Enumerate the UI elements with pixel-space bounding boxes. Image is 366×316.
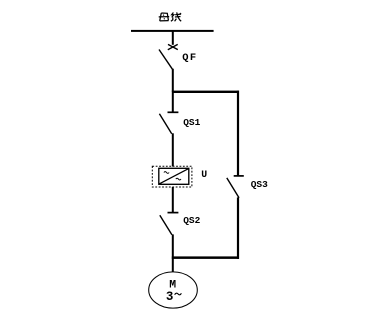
wire: QS3 branch lower vertical bbox=[237, 197, 239, 259]
disconnector QS3 blade bbox=[227, 178, 239, 198]
svg-text:U: U bbox=[201, 169, 207, 180]
wire: bottom branch horizontal from QS3 bbox=[172, 256, 239, 259]
svg-text:QF: QF bbox=[182, 52, 197, 64]
svg-text:QS2: QS2 bbox=[183, 215, 200, 226]
wire: QF to branch node bbox=[172, 69, 174, 92]
svg-text:3: 3 bbox=[166, 290, 174, 304]
motor M circle bbox=[149, 272, 198, 308]
disconnector QS2 fixed contact bar bbox=[168, 212, 179, 214]
motor tilde bbox=[175, 293, 182, 295]
converter U input AC mark bbox=[164, 172, 169, 174]
disconnector QS3 fixed contact bar bbox=[234, 175, 244, 177]
svg-text:QS3: QS3 bbox=[251, 179, 268, 190]
circuit breaker QF blade bbox=[159, 50, 172, 70]
disconnector QS1 fixed contact bar bbox=[168, 111, 179, 113]
wire: QS1 to converter U bbox=[172, 133, 174, 166]
disconnector QS2 blade bbox=[160, 215, 172, 235]
wire: converter U to QS2 bbox=[172, 187, 174, 213]
disconnector QS1 blade bbox=[159, 114, 171, 134]
circuit breaker QF contact cross bbox=[168, 44, 178, 49]
wire: QS2 down to motor node bbox=[172, 234, 174, 272]
node label 母线 (busbar name) bbox=[159, 12, 182, 21]
converter U output AC mark bbox=[176, 178, 181, 180]
converter U diagonal divider bbox=[159, 169, 188, 184]
converter U outer dashed enclosure bbox=[152, 166, 192, 187]
wire: top branch horizontal to QS3 bbox=[172, 91, 239, 93]
converter U inner box bbox=[159, 168, 189, 184]
busbar bbox=[131, 30, 214, 32]
svg-text:QS1: QS1 bbox=[183, 117, 200, 128]
wire: branch node down to QS1 bbox=[172, 93, 174, 112]
wire: QS3 branch upper vertical bbox=[237, 91, 239, 176]
wire: bus drop to QF contact bbox=[172, 31, 174, 44]
